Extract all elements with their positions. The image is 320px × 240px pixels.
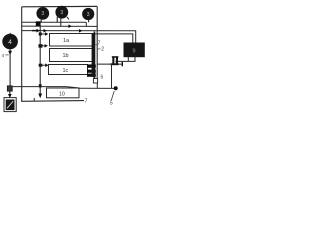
label 4 leader [5,54,8,56]
svg-text:2: 2 [101,47,104,53]
wire under control box [116,60,136,62]
svg-text:3: 3 [87,12,90,18]
valve unit box outer [4,98,16,112]
leader diagonal to label 5 [111,91,114,100]
wire drop y22 to y26 [85,22,87,26]
wire bus h y26 [22,25,98,27]
wire bus h y22 [22,21,87,23]
wire stub pump 3b down2 [60,18,62,26]
wire branch at y45.8 [40,45,44,47]
arrow on y30.6 line third [79,29,82,33]
heat exchanger 1b box [50,49,94,62]
valve unit dark inner [6,100,15,111]
wire inner trunk vertical [39,25,41,97]
pump 3b circle [56,6,68,18]
arrow down to valve box [9,91,11,95]
wire square to bottom line [96,83,98,88]
arrow on y30.6 line [32,30,37,32]
svg-text:10: 10 [59,92,65,98]
junction trunk branch 1a [39,33,42,36]
control unit box (dark) [124,43,144,57]
junction column solid part [92,33,96,67]
junction tick [121,62,123,67]
wire bottom line [21,100,84,103]
wire top supply line [22,5,98,7]
svg-text:1c: 1c [63,68,69,74]
bus right vertical from top [96,6,98,78]
svg-text:3: 3 [41,11,44,17]
arrowhead trunk bottom [38,94,42,99]
junction trunk branch 1c [39,64,43,67]
wire stub pump 3c down [88,19,90,22]
svg-text:6: 6 [101,75,104,81]
bus column right of boxes [93,32,95,84]
wire stub pump 3a down [40,19,42,23]
arrow on y26 line [69,24,72,28]
valve glyph diagonal [7,101,13,108]
svg-text:1b: 1b [63,53,69,59]
wire fan down trunk [9,49,11,86]
junction trunk branch 1a bottom [39,44,43,47]
wire control box bottom stub right [134,57,136,62]
terminal square on bus [93,79,97,84]
tick on bottom line [33,98,35,102]
junction trunk crossing y86 [39,84,42,87]
wire branch into 1a [40,33,45,35]
arrowhead fan line [8,51,12,55]
connector bars component [112,56,119,58]
wire bus h y30.6 to control box [22,31,136,44]
svg-text:5: 5 [110,100,113,106]
svg-text:3: 3 [60,10,63,16]
pump 3c circle [83,8,94,19]
svg-text:9: 9 [132,49,135,55]
arrow on y30.6 line second [44,29,47,33]
heat exchanger 1c box [49,65,88,75]
junction blob under pump 3a [36,21,41,26]
fan 4 circle left [3,34,18,49]
unit 10 box [47,88,80,98]
heat exchanger 1a box [50,34,94,47]
wire fan stub top [9,33,11,35]
sensor small box left bottom [7,86,12,91]
junction blobs on bus lower [87,64,96,67]
wire branch into 1c [40,64,45,66]
tick pump 3b outlet [67,17,69,20]
svg-text:7: 7 [98,41,101,47]
wire bottom right horizontal [79,87,116,89]
svg-text:4: 4 [2,53,5,59]
wire left frame vertical [21,7,23,102]
wire stub pump 3b down [56,17,58,23]
wire 1a top extension to control box [93,34,133,44]
wire h line from sensor to right [12,87,79,98]
svg-text:7: 7 [85,98,88,104]
wire control box bottom stub left [127,57,129,62]
svg-text:1a: 1a [63,38,70,44]
svg-text:4: 4 [8,39,12,46]
junction dot [114,86,118,90]
wire to bus y64 [97,63,122,65]
pump 3a circle [37,7,49,19]
wire vertical drop to dot [111,64,113,88]
